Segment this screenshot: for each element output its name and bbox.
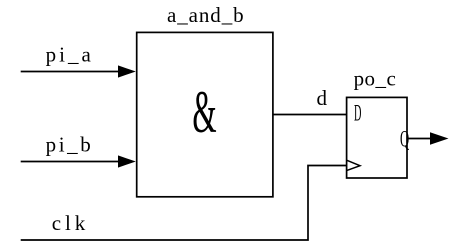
svg-text:clk: clk <box>52 211 86 235</box>
svg-text:po_c: po_c <box>354 67 396 91</box>
svg-text:pi_a: pi_a <box>46 42 92 66</box>
svg-text:a_and_b: a_and_b <box>167 3 244 27</box>
svg-text:&: & <box>192 79 216 145</box>
svg-text:d: d <box>317 86 328 110</box>
svg-text:pi_b: pi_b <box>46 132 91 156</box>
svg-text:Q: Q <box>400 126 409 151</box>
svg-text:D: D <box>354 101 361 126</box>
